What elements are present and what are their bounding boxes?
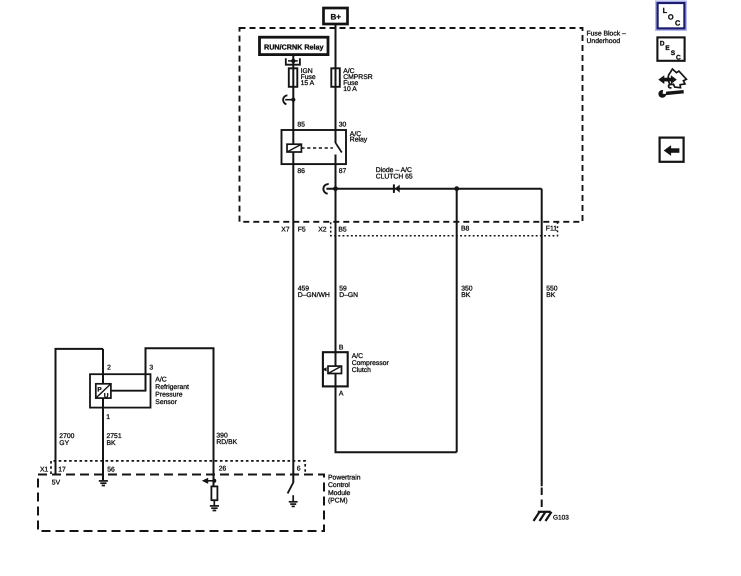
svg-text:X1: X1 [40, 466, 49, 473]
svg-text:17: 17 [58, 466, 66, 473]
svg-text:15 A: 15 A [301, 80, 315, 87]
svg-text:B5: B5 [338, 226, 347, 233]
svg-text:Fuse Block –: Fuse Block – [587, 30, 627, 37]
svg-text:10 A: 10 A [343, 86, 357, 93]
svg-text:D–GN/WH: D–GN/WH [298, 292, 330, 299]
svg-text:E: E [665, 45, 670, 52]
svg-text:85: 85 [297, 122, 305, 129]
svg-text:P: P [97, 386, 102, 393]
svg-text:RD/BK: RD/BK [216, 439, 237, 446]
svg-text:87: 87 [339, 168, 347, 175]
svg-text:B: B [339, 344, 344, 351]
svg-text:Refrigerant: Refrigerant [155, 384, 189, 391]
svg-text:Relay: Relay [350, 137, 368, 144]
svg-text:O: O [668, 12, 674, 21]
svg-text:U: U [104, 393, 109, 400]
svg-text:A: A [339, 391, 344, 398]
svg-text:S: S [671, 50, 676, 57]
svg-text:C: C [676, 54, 681, 61]
svg-text:Powertrain: Powertrain [328, 474, 361, 481]
svg-text:D–GN: D–GN [339, 292, 358, 299]
svg-text:56: 56 [107, 466, 115, 473]
svg-text:F11: F11 [546, 225, 557, 232]
svg-text:G103: G103 [553, 514, 569, 521]
svg-text:Underhood: Underhood [587, 38, 621, 45]
svg-text:(PCM): (PCM) [328, 497, 348, 504]
svg-text:Sensor: Sensor [155, 399, 177, 406]
svg-text:X7: X7 [281, 226, 290, 233]
svg-text:BK: BK [107, 440, 117, 447]
svg-text:L: L [663, 6, 668, 15]
svg-text:BK: BK [546, 292, 556, 299]
svg-text:26: 26 [219, 466, 227, 473]
svg-text:Module: Module [328, 490, 351, 497]
svg-text:B+: B+ [330, 13, 341, 22]
svg-text:3: 3 [149, 364, 153, 371]
svg-text:6: 6 [297, 466, 301, 473]
svg-text:1: 1 [106, 414, 110, 421]
svg-text:86: 86 [297, 168, 305, 175]
svg-text:X2: X2 [318, 226, 327, 233]
svg-text:RUN/CRNK Relay: RUN/CRNK Relay [264, 42, 324, 51]
svg-text:F5: F5 [298, 226, 306, 233]
svg-text:BK: BK [461, 292, 471, 299]
svg-text:30: 30 [339, 122, 347, 129]
svg-text:Control: Control [328, 482, 350, 489]
svg-text:Clutch: Clutch [352, 367, 371, 374]
svg-text:2: 2 [107, 364, 111, 371]
svg-text:5V: 5V [52, 480, 61, 487]
svg-text:A/C: A/C [155, 376, 166, 383]
svg-text:CLUTCH 65: CLUTCH 65 [376, 174, 413, 181]
svg-text:Pressure: Pressure [155, 392, 182, 399]
svg-text:D: D [660, 40, 665, 47]
svg-text:B8: B8 [461, 226, 470, 233]
svg-text:GY: GY [59, 440, 69, 447]
svg-text:C: C [675, 18, 681, 27]
